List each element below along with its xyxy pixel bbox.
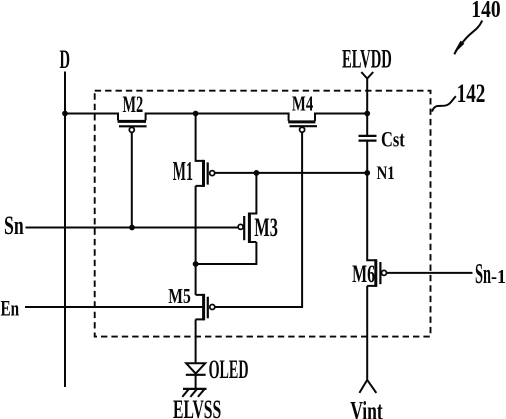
- svg-text:ELVSS: ELVSS: [173, 394, 221, 419]
- svg-text:N1: N1: [377, 163, 395, 184]
- svg-text:Sn: Sn: [4, 210, 24, 240]
- svg-text:En: En: [1, 296, 20, 321]
- svg-text:M2: M2: [123, 92, 144, 118]
- svg-text:M4: M4: [292, 91, 313, 115]
- svg-text:M6: M6: [352, 261, 375, 288]
- svg-text:142: 142: [457, 79, 486, 108]
- svg-text:ELVDD: ELVDD: [342, 44, 392, 73]
- svg-text:M3: M3: [254, 213, 278, 242]
- svg-text:D: D: [60, 44, 71, 74]
- svg-text:140: 140: [471, 0, 500, 23]
- svg-text:Vint: Vint: [350, 397, 383, 419]
- svg-text:OLED: OLED: [209, 354, 249, 384]
- svg-text:M5: M5: [168, 284, 191, 308]
- svg-text:Cst: Cst: [381, 127, 405, 152]
- svg-text:M1: M1: [173, 155, 193, 186]
